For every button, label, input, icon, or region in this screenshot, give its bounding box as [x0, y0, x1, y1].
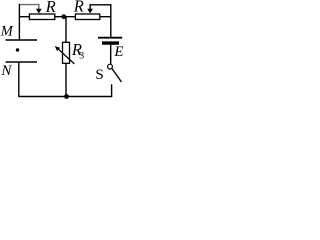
svg-text:N: N	[0, 63, 12, 79]
wire: switch fixed contact down to bottom rail	[111, 84, 113, 96]
plate N (bottom capacitor plate)	[6, 61, 37, 63]
battery E short thick plate (negative)	[102, 41, 119, 44]
charged oil drop between plates	[16, 48, 19, 51]
svg-text:M: M	[0, 24, 14, 40]
wire: top-right slider lead horizontal	[90, 4, 111, 6]
svg-text:R: R	[45, 0, 56, 16]
plate M (top capacitor plate)	[6, 39, 37, 41]
resistor R2 box	[75, 14, 99, 20]
wire: stub from left vertical to R1 left terminal	[19, 16, 29, 18]
wire: R1 right to R2 left	[55, 16, 76, 18]
arrowhead onto R2 (slider arrow)	[87, 9, 93, 14]
rheostat R3 box	[63, 42, 70, 63]
wire: R3 top lead from junction	[65, 17, 67, 43]
svg-text:R: R	[73, 0, 84, 16]
wire: left vertical from top rail down to plate M	[18, 4, 20, 40]
switch S blade (open)	[112, 69, 122, 82]
wire: battery negative down to switch	[110, 45, 112, 64]
wire: top-left slider lead (horizontal, gray)	[19, 4, 39, 6]
junction node dot (top, R3 tap)	[61, 14, 66, 19]
arrowhead onto R1 (slider arrow)	[36, 9, 42, 14]
wire: bottom rail	[19, 96, 113, 98]
rheostat R3 diagonal arrow shaft	[58, 49, 74, 64]
svg-text:S: S	[95, 67, 103, 83]
switch S pivot circle	[108, 64, 113, 69]
wire: arrow R2 slider shaft	[89, 4, 91, 10]
svg-text:E: E	[113, 44, 123, 60]
wire: arrow R1 slider shaft (gray)	[38, 4, 40, 10]
svg-text:3: 3	[79, 51, 84, 62]
junction node dot (bottom, R3 return)	[64, 94, 69, 99]
wire: stub from R2 right terminal to right vertical	[100, 16, 111, 18]
wire: R3 bottom lead to bottom rail	[65, 63, 67, 96]
battery E long plate (positive)	[98, 37, 122, 39]
wire: right vertical down to battery	[110, 4, 112, 37]
wire: bottom-left vertical up to plate N	[18, 62, 20, 97]
rheostat R3 arrowhead	[55, 46, 60, 51]
resistor R1 box	[29, 14, 54, 20]
